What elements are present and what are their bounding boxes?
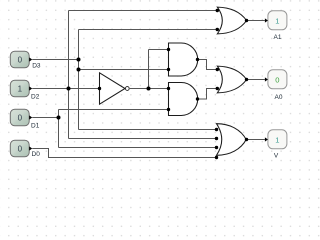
svg-text:0: 0 bbox=[18, 145, 23, 154]
svg-text:D2: D2 bbox=[31, 94, 40, 101]
svg-text:D3: D3 bbox=[32, 63, 41, 70]
svg-text:D0: D0 bbox=[32, 151, 41, 158]
svg-text:V: V bbox=[274, 153, 279, 160]
svg-text:0: 0 bbox=[18, 114, 23, 123]
svg-text:0: 0 bbox=[18, 56, 23, 65]
svg-text:A1: A1 bbox=[274, 34, 282, 41]
svg-text:0: 0 bbox=[275, 75, 279, 84]
svg-text:1: 1 bbox=[18, 85, 23, 94]
svg-text:1: 1 bbox=[275, 16, 279, 25]
svg-text:D1: D1 bbox=[31, 123, 40, 130]
svg-text:1: 1 bbox=[275, 135, 279, 144]
svg-text:A0: A0 bbox=[275, 94, 283, 101]
